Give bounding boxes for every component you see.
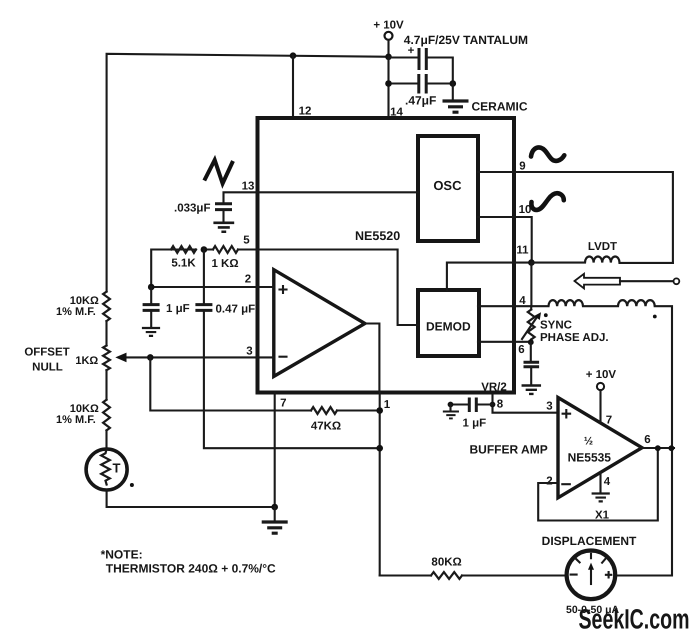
node junction output/feedback — [655, 445, 661, 451]
node junction ceramic row right — [450, 80, 457, 87]
inductor LVDT secondary 1 — [549, 300, 583, 306]
wiper arrow of offset pot — [115, 353, 150, 363]
svg-text:5: 5 — [243, 235, 250, 247]
IC NE5520 package outline — [258, 118, 515, 393]
symbol sine wave pin 9 — [531, 147, 564, 160]
meter displacement 50-0-50 uA — [542, 534, 637, 616]
wire pin 1 external — [379, 393, 381, 576]
LVDT core arrow — [575, 274, 680, 289]
node junction wiper/pin3 — [147, 354, 154, 361]
potentiometer sync phase adj — [522, 306, 609, 344]
svg-text:1 KΩ: 1 KΩ — [211, 258, 238, 270]
svg-text:12: 12 — [299, 106, 312, 118]
resistor 80K — [431, 557, 462, 579]
svg-text:BUFFER AMP: BUFFER AMP — [470, 443, 548, 457]
node junction pin12/top rail — [290, 52, 297, 59]
svg-text:8: 8 — [497, 399, 504, 411]
svg-text:½: ½ — [584, 436, 593, 448]
ground under .033uF — [213, 223, 234, 232]
svg-text:SeekIC.com: SeekIC.com — [579, 604, 690, 635]
svg-text:1: 1 — [384, 399, 391, 411]
wire pin 9 external — [514, 172, 673, 263]
node junction pin7/thermistor — [271, 504, 278, 511]
wire pin 3 external — [150, 356, 257, 358]
note text — [101, 548, 276, 576]
wire pin11 junction down to pin4 row — [530, 263, 532, 307]
node +10V terminal NE5535 — [586, 369, 617, 390]
wire DEMOD pin 4 internal — [478, 305, 514, 307]
node phasing dot secondary 1 — [544, 313, 548, 317]
resistor 10K lower — [56, 400, 110, 431]
wire pin 2 internal — [258, 286, 274, 288]
wire pin 11 internal to DEMOD top — [447, 263, 514, 290]
ground pin 7 — [262, 507, 288, 533]
svg-text:1 μF: 1 μF — [463, 418, 487, 430]
svg-text:THERMISTOR 240Ω + 0.7%/°C: THERMISTOR 240Ω + 0.7%/°C — [106, 562, 276, 576]
wire 10K to thermistor — [105, 430, 107, 449]
ground NE5535 pin 4 — [592, 494, 610, 522]
block DEMOD — [418, 290, 479, 356]
ground top right — [443, 84, 528, 114]
node junction 1uF/gnd — [448, 402, 454, 408]
block OSC — [418, 136, 478, 241]
node +10V supply terminal — [373, 20, 404, 40]
wire between 10K and pot — [105, 321, 107, 345]
svg-text:2: 2 — [245, 274, 251, 286]
svg-text:4.7μF/25V TANTALUM: 4.7μF/25V TANTALUM — [404, 33, 528, 47]
node junction pin1/47K — [376, 407, 383, 414]
ground left of 1uF — [443, 405, 459, 419]
node junction pin6/pot — [528, 339, 534, 345]
wire pin 7 external — [274, 393, 276, 508]
wire op-amp output to pin 1 inside — [365, 324, 380, 393]
node junction pin11 — [528, 259, 535, 266]
capacitor 4.7uF/25V tantalum — [389, 33, 529, 84]
svg-text:7: 7 — [280, 398, 286, 410]
svg-text:+ 10V: + 10V — [373, 20, 404, 32]
wire 47K to pin1 — [337, 409, 380, 411]
wire NE5535 feedback loop — [538, 448, 658, 520]
wire NE5535 pin 7 supply — [599, 390, 601, 423]
svg-text:13: 13 — [242, 181, 255, 193]
svg-text:VR/2: VR/2 — [481, 382, 507, 394]
capacitor .47uF ceramic — [389, 74, 453, 108]
svg-text:11: 11 — [516, 245, 529, 257]
node junction pin8 — [490, 402, 496, 408]
node junction +10V/top rail — [385, 54, 392, 61]
wire left rail 10K top resistor — [56, 292, 110, 322]
capacitor 1uF left — [143, 287, 190, 327]
symbol sine wave pin 10 — [531, 193, 563, 210]
svg-text:LVDT: LVDT — [588, 241, 617, 253]
inductor LVDT secondary 2 — [618, 300, 655, 306]
wire pin 5 internal to DEMOD — [258, 250, 419, 326]
svg-text:NE5520: NE5520 — [355, 229, 400, 243]
wire thermistor to ground junction — [107, 490, 275, 507]
svg-text:1% M.F.: 1% M.F. — [56, 414, 96, 426]
node junction output/meter rail — [669, 445, 675, 451]
svg-text:NE5535: NE5535 — [568, 451, 612, 465]
capacitor 0.47uF — [195, 250, 379, 449]
svg-text:2: 2 — [546, 476, 552, 488]
svg-text:80KΩ: 80KΩ — [431, 557, 461, 569]
wire pin 10 external — [514, 217, 532, 263]
svg-text:1KΩ: 1KΩ — [75, 355, 98, 367]
svg-text:0.47 μF: 0.47 μF — [216, 304, 256, 316]
wire pin 14 lead — [387, 57, 389, 119]
capacitor 1uF right — [451, 398, 493, 430]
op-amp U1 input stage triangle — [274, 270, 365, 377]
wire pin 8 external — [493, 395, 559, 413]
svg-text:47KΩ: 47KΩ — [311, 421, 341, 433]
ground under 1uF — [142, 328, 160, 336]
wire pin 2 external — [151, 286, 257, 288]
wire pin11 junction to LVDT primary — [531, 262, 585, 264]
svg-text:.47μF: .47μF — [405, 94, 436, 108]
symbol triangle-wave — [204, 160, 233, 184]
wire NE5535 pin 4 — [599, 472, 601, 491]
wire pin 12 lead — [292, 56, 294, 118]
svg-text:7: 7 — [606, 415, 612, 427]
node junction pin1/0.47uF net — [376, 445, 383, 452]
svg-text:OFFSET: OFFSET — [24, 347, 69, 359]
wire +10V stub — [387, 40, 389, 57]
svg-text:*NOTE:: *NOTE: — [101, 548, 143, 562]
svg-text:9: 9 — [519, 161, 525, 173]
svg-text:3: 3 — [546, 401, 552, 413]
wire secondary right to meter rail — [615, 306, 672, 575]
svg-text:6: 6 — [518, 344, 524, 356]
wire 80K to meter — [462, 574, 566, 576]
svg-text:6: 6 — [644, 434, 650, 446]
node junction pin2/1uF — [148, 284, 155, 291]
node phasing dot secondary 2 — [653, 315, 657, 319]
capacitor .033uF — [174, 203, 232, 222]
svg-text:.033μF: .033μF — [174, 203, 210, 215]
wire OSC pin 10 internal — [478, 216, 514, 218]
wire pin 6 external — [514, 341, 531, 343]
wire LVDT primary right to pin9 rail — [620, 262, 673, 264]
wire DEMOD pin 6 internal — [478, 341, 514, 343]
svg-text:1% M.F.: 1% M.F. — [56, 306, 96, 318]
wire between secondaries — [583, 305, 618, 307]
svg-text:DISPLACEMENT: DISPLACEMENT — [542, 534, 637, 548]
resistor 5.1K — [171, 246, 196, 269]
wire wiper to 47K row — [150, 357, 311, 410]
svg-text:SYNC: SYNC — [540, 320, 572, 332]
svg-text:DEMOD: DEMOD — [426, 320, 471, 334]
svg-text:CERAMIC: CERAMIC — [472, 100, 528, 114]
resistor 47K — [311, 407, 341, 432]
wire pin 11 external — [514, 262, 531, 264]
wire pin1 to 80K — [380, 574, 431, 576]
svg-text:1 μF: 1 μF — [166, 303, 190, 315]
wire pin 5 external row — [151, 250, 257, 288]
wire pin 3 internal — [258, 356, 274, 358]
capacitor sync filter — [524, 342, 540, 384]
inductor LVDT primary — [585, 241, 619, 263]
wire top rail from left rail to +10V — [107, 54, 389, 292]
svg-text:NULL: NULL — [32, 362, 63, 374]
svg-text:+ 10V: + 10V — [586, 369, 617, 381]
node junction 5.1K/1K — [201, 246, 208, 253]
svg-text:OSC: OSC — [433, 178, 462, 193]
svg-text:3: 3 — [246, 346, 252, 358]
svg-text:4: 4 — [604, 476, 611, 488]
wire pin 13 internal to OSC — [258, 191, 419, 193]
wire NE5535 output — [640, 447, 674, 449]
wire pin 13 external — [224, 192, 258, 202]
resistor 1 Kohm — [211, 246, 238, 270]
wire between pot and lower 10K — [105, 370, 107, 400]
thermistor T — [86, 449, 134, 490]
wire OSC pin 9 internal — [478, 171, 514, 173]
potentiometer 1K offset null — [24, 346, 110, 374]
svg-text:PHASE ADJ.: PHASE ADJ. — [540, 332, 609, 344]
ground under sync cap — [522, 386, 542, 394]
wire pin 4 external — [514, 305, 549, 307]
svg-text:5.1K: 5.1K — [171, 258, 196, 270]
svg-text:T: T — [113, 461, 121, 476]
op-amp U2 NE5535 — [558, 398, 642, 498]
node junction ceramic row left — [385, 80, 392, 87]
